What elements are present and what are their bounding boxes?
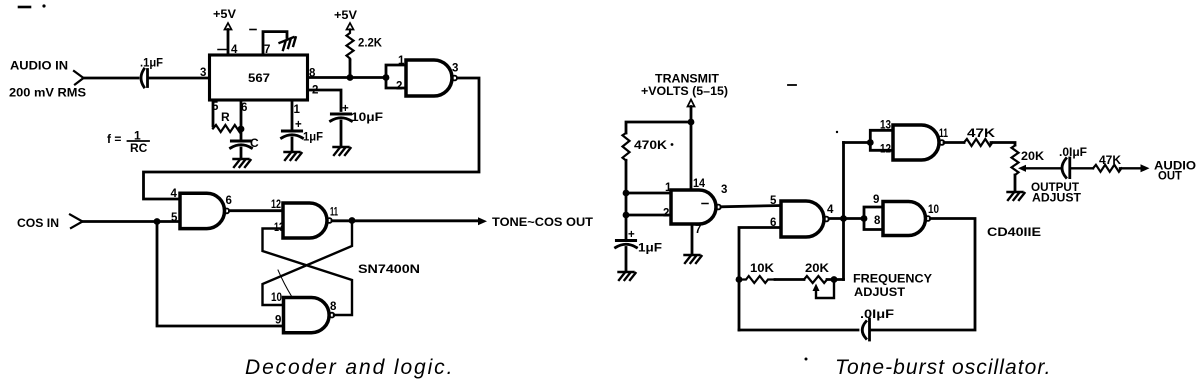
svg-text:+5V: +5V xyxy=(213,7,236,21)
ground (pin 7) xyxy=(280,36,299,50)
svg-text:Tone-burst oscillator.: Tone-burst oscillator. xyxy=(835,356,1051,379)
capacitor .1uF (series input) xyxy=(140,56,163,88)
capacitor C xyxy=(231,129,260,158)
RIGHT CIRCUIT xyxy=(616,72,1197,341)
wire supply to pin 14 xyxy=(690,107,693,191)
svg-text:.0IμF: .0IμF xyxy=(1059,145,1087,159)
wire COS IN to gate xyxy=(82,220,180,223)
svg-text:ADJUST: ADJUST xyxy=(1032,191,1082,205)
pin 7 wire to ground xyxy=(691,224,694,254)
wire feedback left xyxy=(739,329,858,332)
ground (10uF) xyxy=(334,147,351,155)
svg-text:C: C xyxy=(250,136,259,150)
specks top left xyxy=(19,6,30,9)
wire to pin 2 xyxy=(626,214,671,217)
svg-text:R: R xyxy=(221,110,230,124)
input chevron AUDIO IN xyxy=(74,71,84,85)
supply arrow xyxy=(688,100,695,107)
svg-text:3: 3 xyxy=(721,184,727,196)
svg-text:47K: 47K xyxy=(967,126,995,140)
wire to TONE-COS OUT xyxy=(332,219,478,222)
input chevron COS IN xyxy=(70,215,83,229)
svg-text:.1μF: .1μF xyxy=(140,56,163,70)
NAND gate U3c pins 10,9 out 8 xyxy=(271,292,337,333)
wire audio-in to cap xyxy=(83,77,138,80)
node junction supply xyxy=(688,119,695,126)
wire NAND L1 input bracket xyxy=(386,65,406,88)
capacitor 10uF (pin 2) xyxy=(331,103,384,146)
node junction out4/vertical xyxy=(840,215,847,222)
svg-text:f =: f = xyxy=(107,132,121,146)
wire cap to 47K xyxy=(1072,167,1094,169)
label AUDIO OUT xyxy=(1154,159,1196,183)
svg-text:FREQUENCY: FREQUENCY xyxy=(853,272,932,286)
svg-text:14: 14 xyxy=(693,178,706,190)
resistor 470K xyxy=(623,133,674,161)
+5V supply 2.2K xyxy=(334,8,357,30)
svg-text:OUT: OUT xyxy=(1158,169,1183,183)
ground (1uF bias) xyxy=(619,272,636,280)
NAND gate U4c pins 9,8 out 10 xyxy=(873,194,939,236)
node junction gate R4 inputs xyxy=(861,215,868,222)
resistor 10K xyxy=(739,261,775,283)
arrow AUDIO OUT xyxy=(1141,164,1150,172)
svg-text:4: 4 xyxy=(231,44,238,56)
svg-text:+VOLTS (5–15): +VOLTS (5–15) xyxy=(641,84,728,98)
resistor 47K (second) xyxy=(1093,153,1121,172)
svg-text:1μF: 1μF xyxy=(638,241,662,255)
wire 47K to 20K pot xyxy=(991,143,1015,146)
+5V supply pin 4 xyxy=(213,7,238,56)
potentiometer 20K (frequency adjust) xyxy=(804,261,834,298)
wire to AUDIO OUT arrow xyxy=(1120,167,1140,169)
svg-text:+5V: +5V xyxy=(334,8,357,22)
wire R4 input bracket xyxy=(864,207,883,230)
svg-text:11: 11 xyxy=(330,207,338,219)
node junction NAND L1 inputs xyxy=(383,74,390,81)
wire 20K to rail xyxy=(827,278,844,281)
wire 10K to 20K xyxy=(775,278,804,281)
svg-text:6: 6 xyxy=(241,102,247,114)
wire NAND L1 output feedback loop xyxy=(144,78,480,199)
svg-text:7: 7 xyxy=(695,224,701,236)
node junction COS IN xyxy=(154,218,161,225)
node junction input 1 xyxy=(623,190,630,197)
svg-text:20K: 20K xyxy=(1021,149,1044,163)
NAND gate U3a pins 4,5 out 6 xyxy=(171,188,232,229)
svg-text:1μF: 1μF xyxy=(303,130,323,144)
svg-text:8: 8 xyxy=(874,215,881,227)
svg-text:RC: RC xyxy=(130,141,148,155)
LEFT CIRCUIT xyxy=(9,4,838,332)
IC U1 567 tone decoder xyxy=(210,55,308,100)
svg-text:SN7400N: SN7400N xyxy=(358,262,420,276)
svg-text:ADJUST: ADJUST xyxy=(854,285,906,299)
pin 1 wire xyxy=(292,100,301,130)
resistor R (pins 5-6) xyxy=(213,110,242,132)
pin 5 wire xyxy=(212,100,219,126)
capacitor 1uF (pin 1) xyxy=(282,119,324,151)
speck between captions xyxy=(805,358,808,361)
svg-text:3: 3 xyxy=(452,63,458,75)
node junction input 2 xyxy=(623,212,630,219)
svg-text:CD40IIE: CD40IIE xyxy=(987,225,1041,239)
ground (pin 7 CD4011) xyxy=(685,255,702,263)
pin 2 wire xyxy=(308,85,341,111)
node junction output 11 xyxy=(349,217,356,224)
capacitor 1uF (bias) xyxy=(616,229,663,271)
svg-text:20K: 20K xyxy=(805,261,829,275)
resistor 47K (first) xyxy=(964,126,995,146)
pin 6 wire xyxy=(241,100,247,129)
svg-text:1: 1 xyxy=(398,55,405,67)
svg-text:COS IN: COS IN xyxy=(17,216,59,230)
svg-text:9: 9 xyxy=(275,315,281,327)
node junction R3 inputs xyxy=(867,139,874,146)
svg-text:Decoder and logic.: Decoder and logic. xyxy=(245,356,454,379)
formula f = 1/RC xyxy=(107,129,149,156)
svg-text:5: 5 xyxy=(171,212,178,224)
NAND gate U2a pins 1,2 out 3 xyxy=(396,55,458,96)
ground (1uF) xyxy=(285,152,302,160)
wire supply branch left xyxy=(626,122,691,133)
svg-text:47K: 47K xyxy=(1099,153,1121,167)
stray artifact line near latch xyxy=(278,270,292,297)
node junction 2.2K/pin8 xyxy=(347,74,354,81)
NAND gate U3b pins 12,13 out 11 xyxy=(271,199,338,238)
vertical rail out4 xyxy=(842,143,845,280)
wire out3 to pin5 xyxy=(721,206,781,207)
svg-text:11: 11 xyxy=(939,128,948,140)
svg-text:8: 8 xyxy=(330,301,337,313)
arrow TONE-COS OUT xyxy=(478,217,487,225)
svg-text:7: 7 xyxy=(264,44,270,56)
label TRANSMIT +VOLTS (5-15) xyxy=(641,72,728,99)
label AUDIO IN xyxy=(9,59,86,100)
svg-text:10: 10 xyxy=(928,204,939,216)
svg-text:8: 8 xyxy=(309,68,316,80)
wire cap to 567 pin3 xyxy=(149,77,209,80)
wire out4 to gate inputs xyxy=(829,217,864,220)
svg-text:TONE~COS OUT: TONE~COS OUT xyxy=(492,215,594,229)
node junction pin6/R/C xyxy=(238,126,245,133)
wire COS node down to pin 9 xyxy=(157,222,284,327)
svg-text:2: 2 xyxy=(663,208,669,220)
svg-text:5: 5 xyxy=(212,101,219,113)
ground (20K pot) xyxy=(1008,192,1025,200)
svg-text:+: + xyxy=(295,119,302,131)
svg-text:4: 4 xyxy=(171,188,178,200)
label FREQUENCY ADJUST xyxy=(853,272,932,300)
potentiometer 20K (output adjust) xyxy=(1012,146,1063,192)
wire out11 to 47K xyxy=(944,141,964,144)
pin 8 wire xyxy=(308,68,386,80)
svg-text:2.2K: 2.2K xyxy=(358,36,382,50)
pin 7 wire to ground xyxy=(263,32,287,56)
wire pin 10 from cross xyxy=(263,221,353,306)
svg-text:2: 2 xyxy=(312,85,318,97)
wire left rail down xyxy=(625,160,628,240)
svg-text:6: 6 xyxy=(226,195,232,207)
svg-text:5: 5 xyxy=(770,195,777,207)
node junction 10K left xyxy=(736,276,743,283)
svg-text:9: 9 xyxy=(873,194,879,206)
NAND gate U4a pins 1,2 out 3 (CD4011) xyxy=(671,178,727,236)
captions xyxy=(245,356,1051,379)
wire pin 13 from cross xyxy=(263,229,353,316)
wire to pin 1 xyxy=(626,192,671,195)
wire R3 input bracket xyxy=(870,130,893,150)
wire R3 input from rail xyxy=(844,141,871,144)
svg-text:13: 13 xyxy=(880,120,891,132)
wire gate6 out to pin 12 xyxy=(229,209,283,212)
NAND gate U4b pins 5,6 out 4 xyxy=(770,195,834,237)
svg-text:567: 567 xyxy=(248,71,270,85)
capacitor .01uF (output) xyxy=(1059,145,1087,178)
svg-text:4: 4 xyxy=(827,204,834,216)
svg-text:10μF: 10μF xyxy=(351,110,383,124)
svg-text:200 mV RMS: 200 mV RMS xyxy=(9,86,86,100)
svg-text:12: 12 xyxy=(880,144,891,156)
svg-text:10: 10 xyxy=(271,292,282,304)
capacitor .01uF (feedback) xyxy=(860,307,894,340)
ground (C) xyxy=(234,159,251,167)
svg-text:12: 12 xyxy=(271,199,281,211)
resistor 2.2K xyxy=(347,30,383,78)
NAND gate U4d pins 13,12 out 11 xyxy=(880,120,948,161)
svg-text:2: 2 xyxy=(396,81,402,93)
svg-text:3: 3 xyxy=(200,67,206,79)
wire out10 down loop xyxy=(871,219,975,331)
svg-text:1: 1 xyxy=(294,104,301,116)
svg-text:10K: 10K xyxy=(750,261,774,275)
label OUTPUT ADJUST xyxy=(1031,180,1082,205)
wire pin6 loop left/down xyxy=(739,228,781,331)
svg-text:AUDIO IN: AUDIO IN xyxy=(10,59,68,73)
svg-text:470K: 470K xyxy=(634,138,667,152)
svg-text:.0IμF: .0IμF xyxy=(860,307,894,321)
node junction 20K right xyxy=(831,276,838,283)
